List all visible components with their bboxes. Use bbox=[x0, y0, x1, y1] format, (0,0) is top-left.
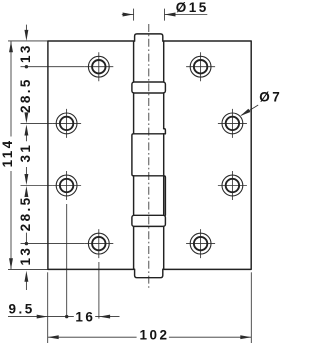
extension line Ø15 left bbox=[133, 9, 135, 21]
extension line hole row 3 bbox=[21, 185, 53, 187]
arrow 28.5 lower up bbox=[24, 186, 28, 197]
svg-text:114: 114 bbox=[0, 138, 15, 167]
knuckle right edge segments bbox=[163, 41, 165, 269]
extension line hole column 2 bbox=[98, 262, 100, 319]
chain dot hole column 1 bbox=[65, 315, 68, 318]
dimension line 114 bbox=[10, 41, 12, 269]
dimension chain column segments bbox=[25, 25, 27, 290]
arrow 16 pointing left from outside bbox=[99, 315, 110, 319]
screw hole B2 right leaf row2 bbox=[218, 109, 247, 138]
right leaf bbox=[164, 41, 252, 269]
dimension line 9.5 / 16 bbox=[8, 316, 120, 318]
chain dot hole row 4 bbox=[25, 242, 28, 245]
centerline hinge pin axis bbox=[148, 24, 150, 288]
extension line 9.5 at plate left edge bbox=[47, 272, 49, 343]
screw hole B3 right leaf row3 bbox=[218, 171, 247, 200]
screw hole B1 right leaf row1 bbox=[186, 52, 215, 81]
arrow 13 top down bbox=[24, 30, 28, 41]
svg-text:31: 31 bbox=[18, 143, 33, 163]
bottom pin cap bbox=[135, 269, 163, 278]
knuckle joint sleeve 1 bbox=[132, 82, 166, 93]
dimension line Ø15 bbox=[122, 14, 208, 16]
arrow 9.5 pointing right bbox=[37, 315, 48, 319]
arrow 31 top up bbox=[24, 125, 28, 136]
arrow Ø7 leader bbox=[240, 109, 250, 116]
arrow 13 bottom up bbox=[24, 271, 28, 282]
extension line Ø15 right bbox=[164, 9, 166, 21]
screw hole A3 left leaf row3 bbox=[52, 171, 81, 200]
arrow 114 top up bbox=[9, 41, 13, 52]
extension line bottom edge left bbox=[8, 268, 48, 270]
arrow Ø15 left pointing right bbox=[123, 13, 134, 17]
left leaf bbox=[48, 41, 134, 269]
screw hole B4 right leaf row4 bbox=[186, 229, 215, 258]
knuckle joint 2 right hook bbox=[164, 129, 166, 134]
top pin cap bbox=[135, 34, 163, 41]
dimension line 102 bbox=[48, 336, 252, 338]
svg-text:Ø15: Ø15 bbox=[176, 0, 209, 15]
screw hole A1 left leaf row1 bbox=[84, 52, 113, 81]
chain dot hole row 1 bbox=[25, 65, 28, 68]
arrow 102 right bbox=[240, 335, 251, 339]
svg-text:13: 13 bbox=[18, 246, 33, 266]
extension line hole row 4 bbox=[21, 243, 85, 245]
svg-text:28.5: 28.5 bbox=[18, 195, 33, 231]
screw hole A4 left leaf row4 bbox=[84, 229, 113, 258]
extension line hole row 1 bbox=[21, 66, 85, 68]
extension line 102 right bbox=[250, 272, 252, 343]
svg-text:9.5: 9.5 bbox=[9, 302, 35, 317]
svg-text:Ø7: Ø7 bbox=[259, 89, 280, 104]
knuckle joint 2 line, middle knuckle left edge, joint 3 line, lower right edge bbox=[132, 134, 166, 216]
leader line Ø7 bbox=[241, 105, 258, 115]
extension line top edge left bbox=[8, 40, 48, 42]
arrow 31 bottom down bbox=[24, 174, 28, 185]
arrow 28.5 upper down bbox=[24, 112, 28, 123]
svg-text:16: 16 bbox=[75, 309, 95, 324]
svg-text:28.5: 28.5 bbox=[18, 77, 33, 113]
extension line hole row 2 bbox=[21, 122, 53, 124]
knuckle left edge segments bbox=[133, 41, 135, 269]
extension line hole column 1 bbox=[66, 204, 68, 317]
svg-text:102: 102 bbox=[139, 328, 169, 343]
arrow Ø15 right pointing left bbox=[165, 13, 176, 17]
svg-text:13: 13 bbox=[18, 43, 33, 63]
arrow 114 bottom down bbox=[9, 258, 13, 269]
arrow 102 left bbox=[48, 335, 59, 339]
screw hole A2 left leaf row2 bbox=[52, 109, 81, 138]
knuckle joint sleeve 4 bbox=[132, 215, 166, 226]
